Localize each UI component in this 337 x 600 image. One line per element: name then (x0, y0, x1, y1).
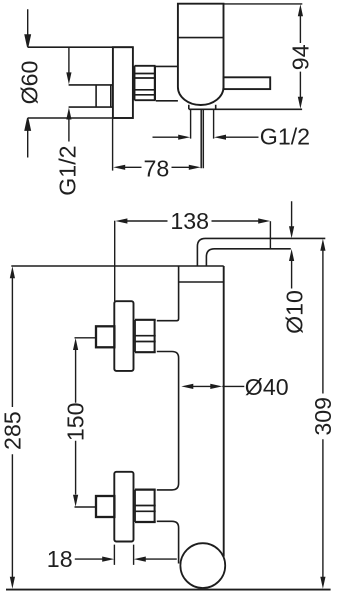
dimension 150 top extension (75, 337, 96, 339)
dimension 94 line and arrows (299, 16, 301, 98)
bottom union wall box (96, 496, 114, 517)
ground line (6, 589, 331, 591)
dimension 138 line and arrows (127, 220, 259, 222)
dimension Ø60 extension lines (28, 47, 133, 118)
connection sleeve (side view) (156, 66, 178, 100)
outlet boss flat + dimension 94 bottom extension (189, 108, 302, 110)
top union nut (135, 320, 156, 352)
shower column left edge lower + bottom sleeve bottom (157, 521, 179, 563)
connection nut (side view) (134, 66, 136, 100)
column top edge + dimension 285 extension line (11, 265, 223, 267)
dimension G1/2 (inlet) arrows (68, 48, 70, 142)
dimension 309 line and arrows (322, 250, 324, 577)
wall supply pipe inner edge + Ø10 extension (206, 249, 290, 266)
bottom union escutcheon plate (114, 472, 133, 542)
shower column left edge middle between unions (157, 352, 179, 490)
svg-text:Ø10: Ø10 (282, 290, 308, 334)
svg-text:150: 150 (62, 402, 88, 441)
dimension G1/2 (outlet) arrows (153, 136, 259, 138)
svg-text:285: 285 (0, 411, 26, 450)
shower column left edge upper + union sleeve top (157, 266, 179, 321)
mixer body (side view) (178, 4, 224, 105)
svg-text:G1/2: G1/2 (260, 124, 310, 150)
dimension 78 line and arrows (125, 166, 190, 168)
svg-text:G1/2: G1/2 (55, 145, 81, 195)
dimension G1/2 (outlet) extension lines (191, 110, 214, 139)
shower hose ball (front view) (180, 543, 225, 588)
svg-text:Ø40: Ø40 (245, 374, 289, 400)
svg-text:78: 78 (144, 155, 170, 181)
body joint line (178, 37, 224, 39)
dimension 150 bottom extension (75, 506, 96, 508)
svg-text:138: 138 (170, 208, 209, 234)
pipe end / dimension 138 right extension (269, 221, 271, 249)
dimension Ø40 line and arrows (192, 385, 244, 387)
dimension 94 top extension line (224, 3, 303, 5)
svg-text:18: 18 (47, 546, 73, 572)
outlet pipe (side view) (201, 110, 203, 168)
svg-text:Ø60: Ø60 (16, 61, 42, 105)
dimension 18 extension lines (114, 545, 133, 565)
handle lever (side view) (224, 77, 271, 89)
dimension 150 line and arrows (75, 350, 77, 495)
bottom union nut (135, 490, 156, 522)
wall escutcheon plate (side view) (113, 47, 133, 118)
svg-text:309: 309 (310, 397, 336, 436)
wall supply pipe (front view) + dim 309 extension (197, 238, 325, 266)
dimension Ø60 arrows (25, 9, 30, 157)
dimension 18 arrows (75, 558, 177, 560)
dimension Ø10 arrows (291, 201, 293, 288)
inlet tube nut (side view) (96, 85, 111, 107)
dimension 78 extension line (112, 119, 114, 171)
shower column right edge (front view) (223, 266, 225, 557)
dimension 138 left extension (114, 221, 116, 301)
svg-text:94: 94 (287, 44, 313, 70)
top union escutcheon plate (114, 301, 133, 371)
column joint line (front view) (179, 281, 224, 283)
inlet tube (side view) (69, 85, 113, 107)
top union wall box (96, 326, 114, 347)
dimension 285 line and arrows (11, 278, 13, 577)
